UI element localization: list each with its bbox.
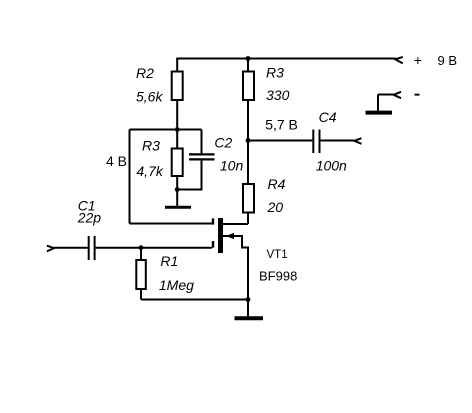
wire: divider node horizontal — [130, 129, 202, 131]
wire: R4 top lead — [247, 141, 249, 184]
svg-text:R2: R2 — [136, 65, 154, 81]
wire: negative ground stub — [377, 95, 379, 111]
transistor VT1 source arrow — [226, 233, 234, 240]
svg-text:10n: 10n — [220, 157, 244, 173]
wire: R3 4,7k top lead — [176, 130, 178, 149]
terminal: +9V connector — [395, 57, 403, 64]
svg-text:+: + — [414, 52, 422, 68]
svg-text:5,6k: 5,6k — [136, 88, 163, 104]
wire: R2 top lead — [176, 59, 178, 72]
wire: R3 330 bottom lead — [247, 101, 249, 141]
transistor VT1 gate 2 electrode — [212, 218, 214, 224]
wire: R3 330 top lead — [247, 59, 249, 71]
resistor R4 — [243, 184, 254, 213]
resistor R3 (330) — [243, 72, 254, 101]
transistor VT1 channel bar — [218, 218, 223, 253]
svg-text:5,7 В: 5,7 В — [265, 116, 298, 132]
svg-text:100n: 100n — [316, 158, 347, 174]
wire: negative terminal lead — [378, 94, 394, 96]
wire: C2 top lead — [201, 130, 203, 154]
wire: +9V top rail — [176, 58, 396, 60]
resistor R3 (4,7k) — [172, 149, 183, 177]
wire: ground stub (source) — [247, 300, 249, 317]
wire: ground stub (divider) — [176, 190, 178, 206]
ground (negative terminal) — [366, 111, 393, 115]
wire: R4 bottom lead — [247, 213, 249, 224]
svg-text:9 В: 9 В — [438, 53, 458, 68]
resistor R1 — [136, 260, 146, 289]
capacitor C1 plates — [89, 236, 95, 260]
junction: top rail / R3 — [246, 56, 251, 61]
label - — [415, 94, 420, 96]
wire: drain lead — [223, 223, 248, 225]
svg-text:4 В: 4 В — [106, 153, 127, 169]
svg-text:R1: R1 — [160, 253, 178, 269]
wire: R2 bottom lead — [176, 101, 178, 130]
wire: gate 2 lead — [130, 223, 213, 225]
resistor R2 — [172, 72, 183, 101]
wire: C1 to gate 1 — [96, 247, 212, 249]
wire: left box vertical to gate 2 — [129, 130, 131, 224]
terminal: output connector (C4) — [354, 138, 361, 144]
svg-text:R3: R3 — [266, 64, 284, 80]
svg-text:BF998: BF998 — [259, 269, 297, 284]
svg-text:VT1: VT1 — [267, 249, 288, 261]
capacitor C4 plates — [313, 130, 319, 154]
terminal: input connector — [47, 246, 54, 252]
junction: node 5,7V — [246, 138, 251, 143]
svg-text:20: 20 — [267, 199, 284, 215]
junction: source / R1 bottom — [246, 297, 251, 302]
svg-text:C4: C4 — [319, 109, 337, 125]
wire: R1 top lead — [140, 248, 142, 259]
terminal: negative connector — [394, 92, 401, 98]
svg-text:C2: C2 — [214, 134, 232, 150]
svg-text:22p: 22p — [77, 210, 102, 226]
junction: R2 / divider node — [175, 127, 180, 132]
junction: R3 4,7k bottom / C2 — [175, 187, 180, 192]
wire: C4 output lead — [321, 140, 355, 142]
wire: source lead path — [223, 236, 248, 300]
wire: source bottom horizontal — [141, 299, 248, 301]
svg-text:4,7k: 4,7k — [136, 163, 163, 179]
ground (divider) — [165, 206, 191, 209]
junction: R1 top / gate wire — [139, 245, 144, 250]
svg-text:R3: R3 — [142, 137, 160, 153]
wire: input lead — [54, 247, 88, 249]
capacitor C2 plates — [189, 154, 215, 159]
wire: C2 bottom lead — [177, 161, 202, 190]
wire: node 5,7V horizontal — [248, 140, 312, 142]
svg-text:330: 330 — [266, 87, 290, 103]
transistor VT1 gate 1 electrode — [212, 241, 214, 248]
wire: R3 4,7k bottom lead — [176, 177, 178, 190]
wire: R1 bottom lead — [140, 290, 142, 300]
ground (source) — [235, 316, 264, 320]
svg-text:1Meg: 1Meg — [159, 277, 194, 293]
svg-text:R4: R4 — [268, 176, 286, 192]
